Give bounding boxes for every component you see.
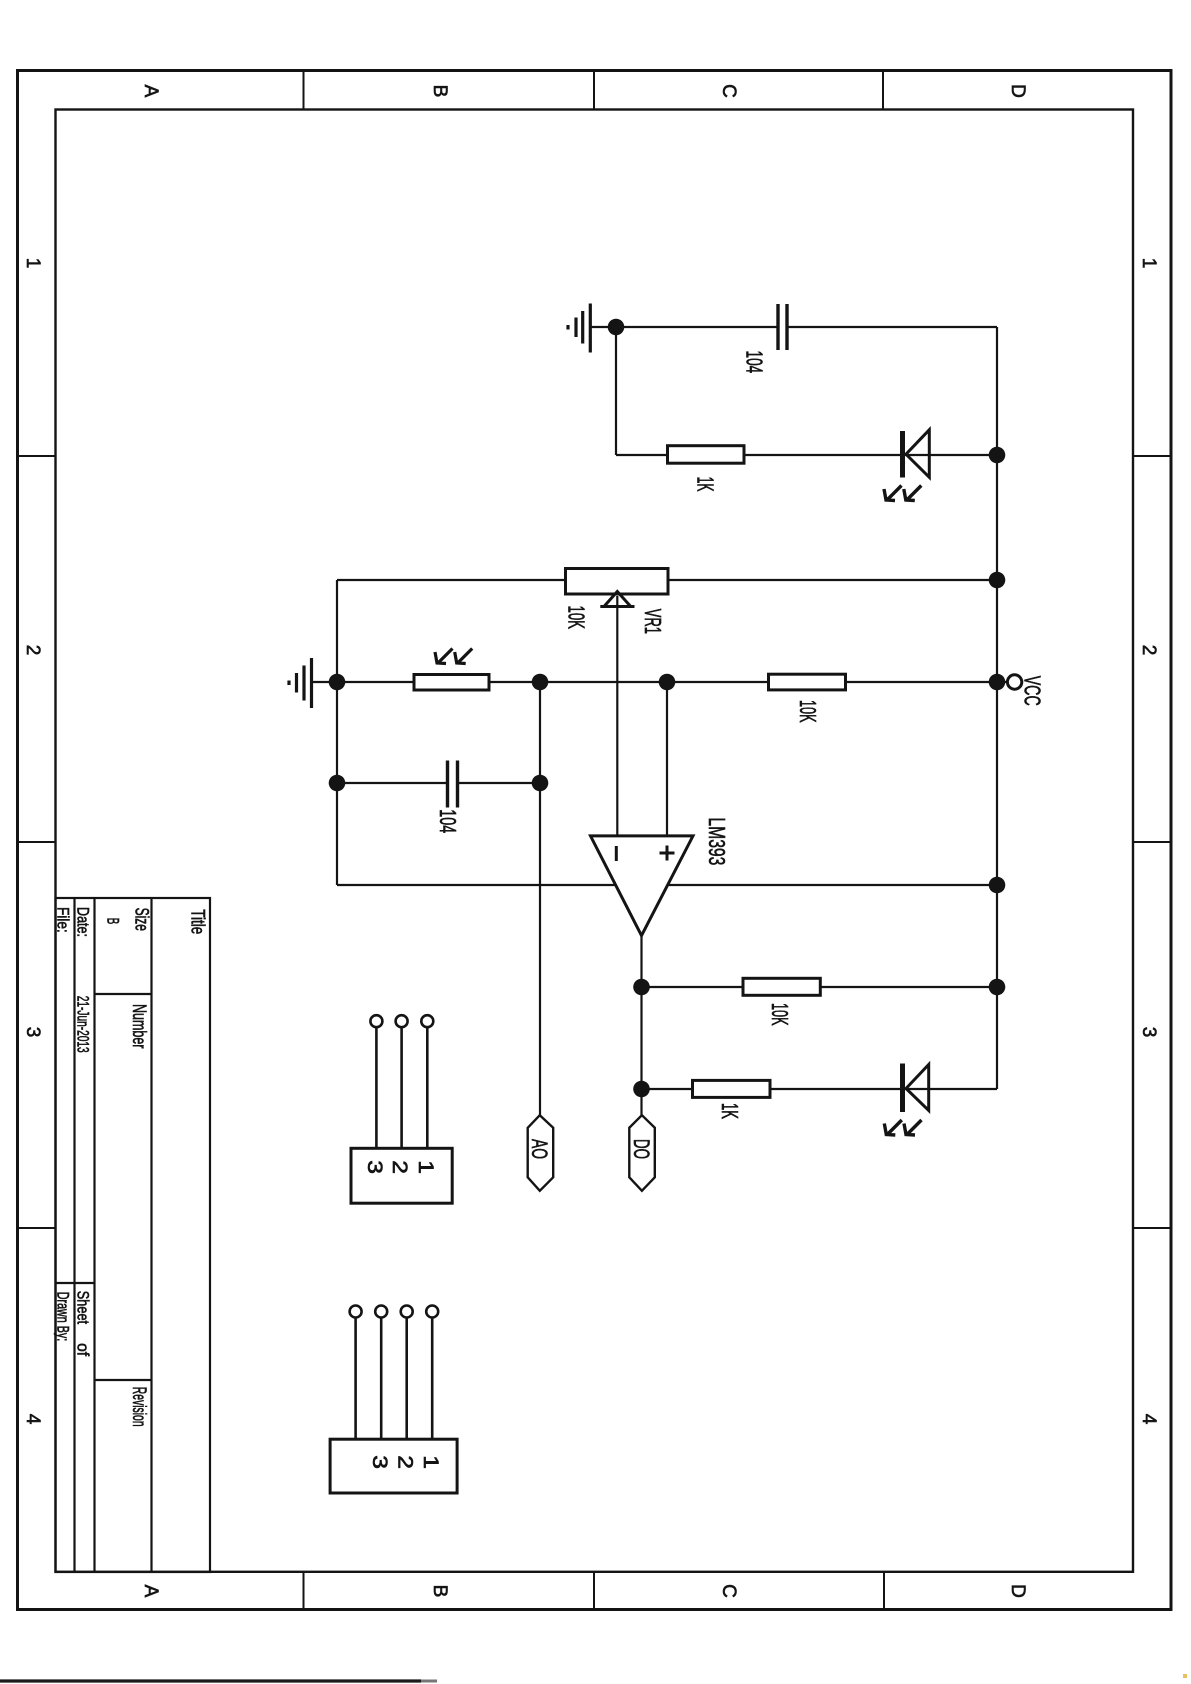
capacitor C2 104 xyxy=(448,761,458,808)
svg-text:B: B xyxy=(429,85,450,98)
svg-text:2: 2 xyxy=(388,1160,411,1174)
wire xyxy=(337,782,448,784)
svg-text:3: 3 xyxy=(1138,1027,1159,1038)
svg-text:4: 4 xyxy=(22,1414,43,1425)
svg-text:1: 1 xyxy=(22,258,43,269)
wire left bus xyxy=(336,580,338,885)
connector J2 4-pin xyxy=(330,1306,457,1494)
svg-text:Size: Size xyxy=(130,908,151,931)
port AO xyxy=(528,1115,554,1191)
wire output net xyxy=(640,936,642,1115)
potentiometer VR1 10K xyxy=(566,569,669,595)
wire xyxy=(590,326,616,328)
svg-text:B: B xyxy=(429,1585,450,1598)
wire xyxy=(787,326,997,328)
wire plus input xyxy=(666,682,668,836)
J1 pin numbers 1 2 3 xyxy=(363,1160,437,1174)
junction output / R3 xyxy=(633,979,650,996)
svg-text:3: 3 xyxy=(22,1027,43,1038)
wire xyxy=(489,681,1007,683)
svg-text:of: of xyxy=(74,1343,93,1356)
svg-text:2: 2 xyxy=(1138,645,1159,656)
svg-text:10K: 10K xyxy=(795,700,821,723)
svg-text:D: D xyxy=(1007,84,1028,98)
junction VCC bus / VR1 row xyxy=(989,572,1006,589)
svg-text:Date:: Date: xyxy=(74,907,93,937)
LED D2 xyxy=(884,1064,928,1136)
svg-text:104: 104 xyxy=(742,351,768,374)
svg-text:1K: 1K xyxy=(693,477,719,492)
resistor R1 1K xyxy=(668,446,745,464)
junction plus input node xyxy=(659,674,676,691)
wire xyxy=(668,579,997,581)
junction left ground node xyxy=(329,674,346,691)
wire VCC bus xyxy=(996,327,998,1089)
title block (decorative) xyxy=(56,898,211,1572)
svg-text:LM393: LM393 xyxy=(704,817,730,865)
svg-text:Drawn By:: Drawn By: xyxy=(54,1292,73,1341)
wire xyxy=(616,326,778,328)
svg-text:VCC: VCC xyxy=(1020,676,1046,706)
svg-text:Sheet: Sheet xyxy=(74,1291,93,1324)
wire xyxy=(337,579,566,581)
svg-text:104: 104 xyxy=(435,809,461,833)
resistor R2 10K xyxy=(769,674,846,690)
svg-text:C: C xyxy=(718,1584,739,1598)
wire xyxy=(642,986,744,988)
wire xyxy=(615,327,617,455)
svg-text:Number: Number xyxy=(128,1004,149,1049)
scan artifact line (decorative) xyxy=(0,1679,421,1682)
resistor R4 1K xyxy=(693,1080,771,1097)
junction VCC bus / R3 row xyxy=(989,979,1006,996)
junction VCC bus / LED row xyxy=(989,447,1006,464)
junction VCC bus / VCC pin row xyxy=(989,674,1006,691)
junction VCC bus / ground row xyxy=(989,877,1006,894)
power port VCC xyxy=(1007,675,1021,689)
wire ground row xyxy=(337,884,997,886)
svg-text:4: 4 xyxy=(1138,1414,1159,1425)
svg-text:1K: 1K xyxy=(717,1103,743,1119)
wire xyxy=(820,986,997,988)
wire AO net xyxy=(539,682,541,1115)
junction at top ground node xyxy=(608,319,625,336)
junction C2 / AO line xyxy=(532,775,549,792)
photoresistor LDR xyxy=(414,675,489,691)
ground xyxy=(289,658,312,708)
svg-text:3: 3 xyxy=(368,1455,391,1469)
capacitor C1 104 xyxy=(778,304,787,350)
svg-text:DO: DO xyxy=(629,1139,654,1159)
ground xyxy=(568,304,590,353)
svg-text:10K: 10K xyxy=(564,606,590,630)
op-amp U1 LM393 xyxy=(591,836,694,936)
junction left bus / C2 xyxy=(329,775,346,792)
svg-text:21-Jun-2013: 21-Jun-2013 xyxy=(74,996,93,1053)
svg-text:A: A xyxy=(140,1585,161,1598)
svg-text:2: 2 xyxy=(22,645,43,656)
wire xyxy=(616,454,668,456)
wire wiper to minus input xyxy=(616,596,618,836)
svg-text:10K: 10K xyxy=(767,1003,793,1026)
svg-text:1: 1 xyxy=(414,1160,437,1174)
wire xyxy=(642,1088,693,1090)
svg-text:C: C xyxy=(718,84,739,98)
svg-text:B: B xyxy=(104,918,123,925)
svg-text:Title: Title xyxy=(186,909,207,934)
LED D1 xyxy=(884,430,929,501)
svg-text:Revision: Revision xyxy=(128,1387,149,1427)
J2 pin numbers 1 2 3 xyxy=(368,1455,442,1469)
wire xyxy=(458,782,541,784)
port DO xyxy=(629,1115,655,1191)
junction node A (LDR / C2 / AO) xyxy=(532,674,549,691)
connector J1 3-pin xyxy=(351,1015,452,1203)
wire xyxy=(312,681,415,683)
svg-text:File:: File: xyxy=(54,907,73,933)
wire xyxy=(770,1088,997,1090)
svg-text:D: D xyxy=(1007,1584,1028,1598)
svg-text:1: 1 xyxy=(1138,258,1159,269)
junction output / R4 / DO xyxy=(633,1081,650,1098)
svg-text:2: 2 xyxy=(394,1455,417,1469)
svg-text:AO: AO xyxy=(527,1139,552,1159)
svg-text:3: 3 xyxy=(363,1160,386,1174)
wire xyxy=(744,454,997,456)
svg-text:1: 1 xyxy=(419,1455,442,1469)
svg-text:A: A xyxy=(140,85,161,98)
svg-text:VR1: VR1 xyxy=(640,609,666,634)
resistor R3 10K xyxy=(743,978,820,995)
